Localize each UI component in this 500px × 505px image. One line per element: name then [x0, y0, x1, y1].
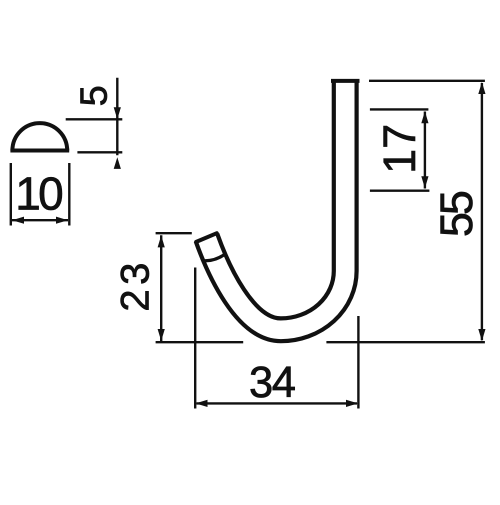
- hook body: stem top end cap: [333, 79, 358, 83]
- hook body: tip cut-face arc: [202, 254, 225, 261]
- dimension 23: arrow down: [158, 329, 165, 341]
- dimension 23: dimension line: [160, 235, 162, 341]
- cross-section: half-round profile outline: [10, 123, 69, 150]
- svg-text:55: 55: [431, 190, 482, 237]
- dimension 10: extension line right: [68, 163, 70, 226]
- dimension 23: arrow up: [158, 235, 165, 247]
- hook body: tip end cap line: [196, 233, 217, 242]
- dimension 17: extension line bottom: [370, 189, 430, 191]
- hook body: rod outline (black tube with white core): [207, 81, 346, 330]
- dimension 5: extension line top: [66, 118, 123, 120]
- dimension 17: extension line top: [370, 108, 429, 110]
- dimension 23: extension line top (at hook tip): [156, 232, 192, 234]
- dimension 55: dimension line: [481, 83, 483, 340]
- dimension 10: arrow right: [56, 217, 68, 224]
- dimension 10: extension line left: [10, 163, 12, 226]
- dimension 17: dimension line: [424, 112, 426, 189]
- bottom reference line right segment (hook bottom): [326, 341, 485, 343]
- dimension 34: extension line right: [357, 316, 359, 409]
- svg-text:34: 34: [249, 359, 296, 407]
- dimension 34: extension line left: [194, 268, 196, 409]
- dimension 5: arrow up: [114, 157, 121, 169]
- dimension 34: arrow right: [346, 400, 358, 407]
- svg-text:5: 5: [74, 85, 116, 106]
- dimension 17: arrow up: [421, 111, 428, 123]
- dimension 5: extension line bottom: [77, 151, 122, 153]
- dimension 55: extension line top (from stem top): [369, 80, 485, 82]
- dimension 10: dimension line: [12, 219, 68, 221]
- bottom reference line left segment: [156, 341, 244, 343]
- svg-text:17: 17: [374, 124, 425, 174]
- dimension 55: arrow down: [478, 329, 485, 341]
- dimension 34: arrow left: [196, 400, 208, 407]
- dimension 34: dimension line: [197, 402, 358, 404]
- dimension 55: arrow up: [478, 82, 485, 94]
- dimension 5: arrow down: [114, 107, 121, 119]
- svg-text:10: 10: [15, 168, 64, 220]
- dimension 5: dimension line: [116, 78, 118, 156]
- dimension 10: arrow left: [12, 217, 24, 224]
- dimension 17: arrow down: [421, 176, 428, 188]
